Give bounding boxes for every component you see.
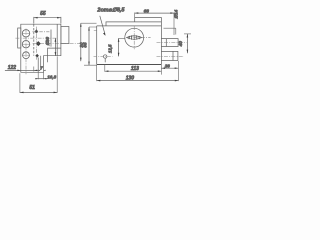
dim 30 keyhole arrows <box>118 38 120 56</box>
screw hole circle 1 <box>22 30 29 37</box>
centerline vertical through circles <box>25 29 27 75</box>
dim 130 ext line right <box>177 61 179 81</box>
square spindle hole 3 (diamond) <box>35 54 39 58</box>
knob grip (lens) <box>127 36 142 40</box>
body bottom edge (thicker) <box>97 64 162 66</box>
centerline vertical through diamonds <box>36 27 38 60</box>
dim 85 ext lines <box>84 27 97 65</box>
note leader arrow <box>103 33 106 36</box>
centerline row diamond1 <box>32 31 49 33</box>
dim 30 left-view vertical line <box>54 38 56 56</box>
dim 40 arrows <box>187 34 189 53</box>
lock plate and case outline <box>21 24 61 72</box>
dim 122 arrows <box>17 70 37 72</box>
dim 68 ext lines <box>135 13 174 36</box>
knob grip knurl marks <box>129 35 139 40</box>
bolt-end box <box>61 27 69 44</box>
mounting hole tick <box>94 30 97 32</box>
keyhole slot <box>104 58 106 62</box>
dim 30 keyhole line <box>118 38 120 56</box>
knob centerline horizontal <box>126 37 151 39</box>
dim 68 line <box>135 12 174 14</box>
bolt 2 centerline <box>157 56 185 58</box>
svg-text:∅14: ∅14 <box>174 9 179 18</box>
svg-text:38: 38 <box>165 63 171 68</box>
svg-text:68: 68 <box>144 9 150 15</box>
dim 38 line <box>161 67 178 69</box>
circle center ticks <box>22 33 30 55</box>
svg-text:113: 113 <box>131 66 139 72</box>
dim 85 line <box>88 27 90 65</box>
square spindle hole 1 (diamond) <box>35 29 39 33</box>
dim 130 ext line left <box>96 65 98 81</box>
dim 12,5 top ext <box>119 37 126 39</box>
dim 85 arrows <box>88 27 90 65</box>
case internal step <box>48 48 61 62</box>
centerline cylinder axis <box>15 37 56 39</box>
dim 122 line <box>5 69 38 71</box>
dim 30 middle top ext <box>81 22 97 24</box>
dim 51 ext line <box>19 73 21 93</box>
svg-text:40: 40 <box>178 41 184 48</box>
case inner wall <box>50 30 52 47</box>
svg-text:12,5: 12,5 <box>108 44 113 53</box>
dim 130 line <box>97 80 179 82</box>
dim 40 line <box>186 34 188 53</box>
dim 113 line <box>105 70 162 72</box>
svg-text:2отв∅6,5: 2отв∅6,5 <box>96 7 125 14</box>
dim 38 arrows <box>161 67 178 69</box>
cover step 2 <box>135 17 162 22</box>
bolt ref ext <box>164 28 176 34</box>
dim 30 middle arrows <box>80 23 82 61</box>
dim 55 arrows <box>34 17 61 19</box>
screw hole circle 3 <box>23 52 30 59</box>
dim 130 arrows <box>97 80 179 82</box>
centerline row diamond2 <box>33 43 82 45</box>
keyhole circle <box>104 55 107 58</box>
svg-text:51: 51 <box>29 85 35 91</box>
svg-text:130: 130 <box>126 75 135 81</box>
dim 16,8 line <box>35 78 47 80</box>
bolt 2 <box>161 51 178 60</box>
bolt 2 collar line <box>172 51 174 60</box>
note leader line <box>100 16 105 35</box>
screw hole circle 2 <box>22 41 29 48</box>
svg-text:85: 85 <box>83 42 88 48</box>
dim 51 line <box>20 91 57 93</box>
bolt 1 centerline <box>157 42 187 44</box>
svg-text:∅30: ∅30 <box>45 36 50 45</box>
knob centerline vertical <box>133 26 135 49</box>
square spindle hole 2 (diamond, main) <box>36 41 41 46</box>
svg-text:16,8: 16,8 <box>47 75 56 80</box>
dim 51 arrows <box>20 92 57 94</box>
svg-text:55: 55 <box>40 11 46 17</box>
dim 55 ext lines <box>34 17 61 24</box>
dim 40 ext line <box>184 33 191 35</box>
spindle guide verticals <box>38 56 41 73</box>
svg-text:122: 122 <box>8 65 17 71</box>
knob outer circle <box>125 28 144 47</box>
body outline <box>97 17 162 64</box>
case lid inner line <box>56 24 58 56</box>
dim 113 ext lines <box>105 65 162 75</box>
dim 68 arrows <box>135 12 174 14</box>
bolt 1 collar line <box>165 39 167 47</box>
dim 30 middle line <box>80 23 82 61</box>
dim 30 left arrows <box>55 38 57 56</box>
cylinder tab <box>18 28 21 48</box>
cover step 1 <box>106 22 161 26</box>
keyhole centerline <box>94 55 113 57</box>
dim 16,8 ext lines <box>34 56 57 93</box>
dim 7 arrows <box>39 70 46 71</box>
dim 113 arrows <box>105 70 162 72</box>
bolt 1 <box>161 39 178 47</box>
dim 16,8 arrows <box>35 78 46 79</box>
case hidden left edge (dashed) <box>33 24 35 56</box>
dim 55 line <box>34 17 61 19</box>
